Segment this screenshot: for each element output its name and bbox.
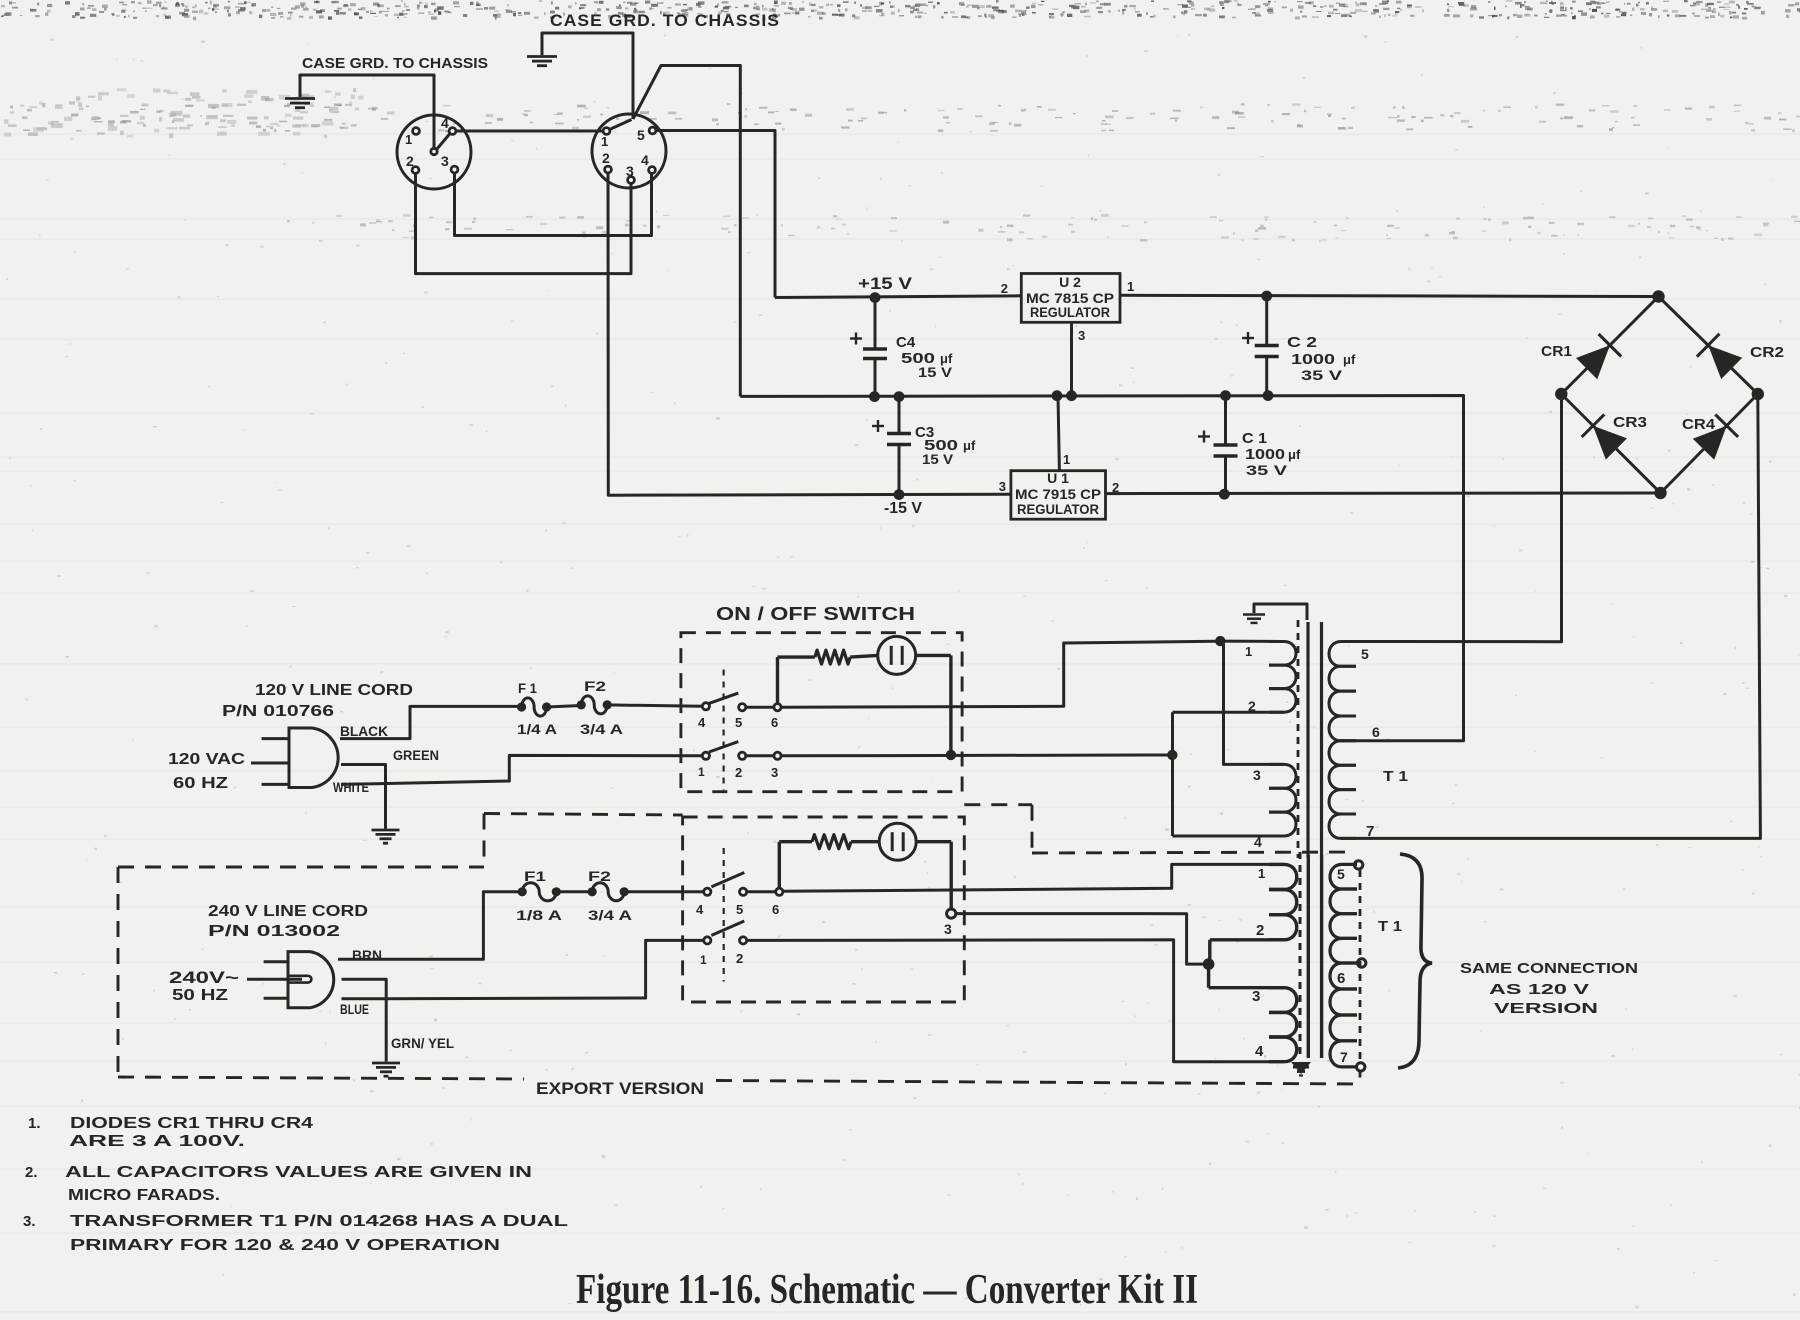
diode CR2 <box>1697 334 1720 357</box>
svg-text:2: 2 <box>736 951 743 966</box>
svg-text:P/N 010766: P/N 010766 <box>222 703 334 720</box>
transformer T1 secondary (120V) <box>1329 642 1356 667</box>
svg-text:1/4 A: 1/4 A <box>517 721 557 737</box>
wire brown <box>338 892 518 960</box>
switch S1 contacts 120V <box>702 703 709 710</box>
brace same-connection <box>1398 854 1432 1068</box>
svg-text:3: 3 <box>626 163 634 179</box>
wire bridge-right to T1 pin7 <box>1341 394 1760 838</box>
svg-text:2.: 2. <box>25 1164 38 1181</box>
node 0V/C2 bottom <box>1263 390 1274 401</box>
svg-text:1000: 1000 <box>1291 351 1335 368</box>
svg-text:6: 6 <box>1337 970 1345 987</box>
regulator U1 MC7915CP <box>1011 471 1106 520</box>
wire J2 pin5 to +15 feed <box>656 131 775 298</box>
svg-text:2: 2 <box>1256 922 1264 939</box>
svg-text:5: 5 <box>736 902 743 917</box>
resistor + neon lamp DS1' (240V) <box>778 842 781 889</box>
svg-text:CASE GRD. TO CHASSIS: CASE GRD. TO CHASSIS <box>550 12 780 30</box>
switch box S1 (dashed) <box>681 633 962 792</box>
svg-text:C 2: C 2 <box>1287 334 1317 351</box>
svg-text:3/4 A: 3/4 A <box>580 721 623 737</box>
svg-text:5: 5 <box>1361 646 1369 662</box>
fuse F1 (120V) <box>517 702 526 711</box>
node bridge left <box>1555 388 1567 400</box>
diode CR3 <box>1582 414 1605 437</box>
svg-text:120 VAC: 120 VAC <box>168 751 246 768</box>
svg-text:2: 2 <box>602 150 610 166</box>
node +15/C4 <box>870 292 881 303</box>
svg-text:WHITE: WHITE <box>333 780 369 795</box>
wire c2-c3 <box>746 754 774 757</box>
ground (grn/yel) <box>372 1062 400 1065</box>
svg-text:3: 3 <box>441 153 449 169</box>
wire case-grd left connector <box>300 75 434 149</box>
wire J2 pin1 to case-grd node <box>610 120 632 130</box>
node 0V/C4 <box>869 391 880 402</box>
svg-text:ALL CAPACITORS VALUES ARE: ALL CAPACITORS VALUES ARE GIVEN IN <box>65 1164 532 1181</box>
svg-text:2: 2 <box>406 153 414 169</box>
wire J1 pin3 to J2 pin4 <box>455 173 652 236</box>
svg-text:GRN/ YEL: GRN/ YEL <box>391 1036 454 1051</box>
wire c3 to 2-4 tie <box>781 754 1167 758</box>
transformer T1 secondary (240V export) <box>1330 864 1357 889</box>
svg-text:1: 1 <box>1258 866 1265 881</box>
svg-text:3: 3 <box>944 921 952 937</box>
svg-text:3: 3 <box>1253 767 1261 783</box>
wire F2 to switch 240V <box>624 890 704 893</box>
svg-text:3: 3 <box>1252 988 1260 1005</box>
svg-text:ON / OFF SWITCH: ON / OFF SWITCH <box>716 604 915 624</box>
svg-text:MICRO FARADS.: MICRO FARADS. <box>68 1187 220 1204</box>
svg-text:C 1: C 1 <box>1242 430 1267 447</box>
node -15/C1 <box>1219 489 1230 500</box>
svg-text:35 V: 35 V <box>1301 367 1343 383</box>
svg-text:U 2: U 2 <box>1059 274 1081 290</box>
wire bridge edge left-top <box>1561 297 1658 395</box>
ground (T1 core) <box>1243 613 1265 616</box>
svg-text:240V~: 240V~ <box>169 968 239 987</box>
plug P2 240V line cord <box>288 952 334 1008</box>
svg-text:F2: F2 <box>588 868 611 884</box>
svg-text:3: 3 <box>999 479 1006 494</box>
svg-text:+15 V: +15 V <box>858 274 913 293</box>
svg-text:CR3: CR3 <box>1613 414 1647 431</box>
svg-text:-15 V: -15 V <box>884 500 922 517</box>
svg-text:5: 5 <box>735 715 742 730</box>
svg-text:2: 2 <box>1112 480 1119 495</box>
wire c6 to T1 pin1 feed <box>781 641 1215 707</box>
svg-text:4: 4 <box>441 115 449 131</box>
wire case-grd right connector <box>542 33 633 119</box>
svg-text:120 V LINE CORD: 120 V LINE CORD <box>255 682 413 699</box>
wire blue <box>342 940 704 998</box>
svg-text:6: 6 <box>1372 724 1380 740</box>
ground (T1 240V core) <box>1291 1062 1311 1074</box>
svg-text:15 V: 15 V <box>918 364 953 380</box>
wire c5-c6 <box>746 706 774 709</box>
diode CR1 <box>1599 334 1622 357</box>
svg-text:15 V: 15 V <box>922 451 954 467</box>
fuse F2 (120V) <box>577 700 586 709</box>
wire c6' to T1' pin1 <box>783 864 1284 891</box>
capacitor C3 500uf 15V <box>898 397 901 434</box>
node 0V/U2 pin3 <box>1066 390 1077 401</box>
wire c2' to T1' pin4 <box>747 940 1284 1062</box>
svg-text:4: 4 <box>698 715 706 730</box>
svg-text:1.: 1. <box>28 1115 41 1132</box>
svg-text:MC 7915 CP: MC 7915 CP <box>1015 487 1101 502</box>
svg-text:EXPORT VERSION: EXPORT VERSION <box>536 1079 704 1098</box>
svg-text:TRANSFORMER T1 P/N 014268: TRANSFORMER T1 P/N 014268 HAS A DUAL <box>70 1213 568 1230</box>
wire black <box>340 706 519 738</box>
svg-text:ARE 3 A 100V.: ARE 3 A 100V. <box>69 1133 245 1150</box>
svg-text:PRIMARY FOR 120 & 240 V OP: PRIMARY FOR 120 & 240 V OPERATION <box>70 1237 500 1254</box>
node +15/C2 <box>1261 291 1272 302</box>
svg-text:VERSION: VERSION <box>1494 1000 1598 1017</box>
svg-text:AS 120 V: AS 120 V <box>1489 981 1589 998</box>
svg-text:35 V: 35 V <box>1246 462 1288 478</box>
diode CR4 <box>1715 415 1738 437</box>
node 0V/U1 pin1 <box>1052 390 1063 401</box>
EXPORT VERSION dashed outline <box>118 866 484 869</box>
svg-text:1: 1 <box>698 765 705 779</box>
node 0V/C3 top <box>894 391 905 402</box>
wire bridge edge top-right <box>1659 297 1758 395</box>
node lamp/c3 line <box>946 750 956 760</box>
wire core to ground <box>1254 604 1307 620</box>
wire +15V rail left <box>775 296 1021 298</box>
wire +15V rail right <box>1120 295 1659 296</box>
connector J1 (5-pin plug left) <box>397 115 471 189</box>
connector J2 (5-pin plug right) <box>592 114 666 188</box>
node 0V/C1 top <box>1220 390 1231 401</box>
wire 0V rail <box>740 396 1463 741</box>
transformer T1 primary (240V export) <box>1269 864 1297 889</box>
svg-text:6: 6 <box>771 715 778 730</box>
fuse F1 (240V) <box>518 887 527 896</box>
capacitor C4 500uf 15V <box>874 298 877 349</box>
svg-text:μf: μf <box>963 438 976 453</box>
svg-text:7: 7 <box>1340 1049 1348 1065</box>
svg-text:BLUE: BLUE <box>340 1002 369 1017</box>
svg-text:3: 3 <box>771 765 778 780</box>
svg-text:3: 3 <box>1078 328 1085 343</box>
wire bridge edge bottom-right <box>1661 394 1758 493</box>
wire c3' to 2-3 tie <box>956 914 1203 965</box>
svg-text:BLACK: BLACK <box>340 724 388 739</box>
svg-text:REGULATOR: REGULATOR <box>1030 305 1110 320</box>
switch S2 contacts 240V <box>704 888 711 895</box>
ground (green wire) <box>372 829 400 832</box>
svg-text:5: 5 <box>1337 866 1345 882</box>
svg-text:3.: 3. <box>23 1213 36 1230</box>
svg-text:240 V LINE CORD: 240 V LINE CORD <box>208 903 368 920</box>
transformer T1 primary (120V) <box>1220 640 1284 643</box>
wire bridge-left to T1 pin5 <box>1341 394 1562 642</box>
wire F2 to switch <box>607 705 702 706</box>
transformer T1 core <box>1297 620 1300 858</box>
wire green <box>341 765 386 829</box>
wire bridge edge left-bottom <box>1561 394 1660 493</box>
node -15/C3 <box>894 489 905 500</box>
svg-text:4: 4 <box>1254 834 1262 850</box>
wire J1 pin2 to J2 pin3 <box>416 174 632 274</box>
svg-text:2: 2 <box>735 765 742 780</box>
svg-text:1: 1 <box>1245 644 1252 659</box>
svg-text:DIODES CR1 THRU CR4: DIODES CR1 THRU CR4 <box>70 1115 314 1132</box>
wire -15V rail right <box>1106 492 1661 496</box>
svg-text:T 1: T 1 <box>1378 918 1402 935</box>
svg-text:1/8 A: 1/8 A <box>516 907 562 923</box>
svg-text:μf: μf <box>1288 447 1301 462</box>
node bridge bottom <box>1654 487 1666 499</box>
svg-text:1: 1 <box>700 953 707 967</box>
svg-text:F2: F2 <box>584 678 606 694</box>
svg-text:Figure 11-16. Schematic — Co: Figure 11-16. Schematic — Converter Kit … <box>576 1267 1198 1313</box>
svg-text:P/N 013002: P/N 013002 <box>208 923 340 940</box>
svg-text:REGULATOR: REGULATOR <box>1017 502 1099 517</box>
svg-text:1: 1 <box>405 132 412 147</box>
plug P1 120V line cord <box>289 728 338 788</box>
ground (left case grd) <box>285 97 315 100</box>
wire F1-F2 <box>547 706 582 708</box>
svg-text:2: 2 <box>1001 281 1008 296</box>
wire node to 0V feed diagonal <box>633 66 740 397</box>
svg-text:3/4 A: 3/4 A <box>588 907 632 923</box>
regulator U2 MC7815CP <box>1021 274 1120 323</box>
capacitor C2 1000uf 35V <box>1265 296 1268 346</box>
wire J1 pin4 to J2 pin1 <box>456 130 603 133</box>
wire white <box>341 755 702 784</box>
switch box S1' 240V (dashed) <box>683 817 965 1002</box>
resistor + neon lamp DS1 (120V) <box>776 657 779 704</box>
svg-text:F 1: F 1 <box>518 680 537 696</box>
svg-text:6: 6 <box>772 902 779 917</box>
svg-text:μf: μf <box>1343 352 1356 367</box>
svg-text:4: 4 <box>641 152 649 168</box>
svg-text:2: 2 <box>1248 698 1256 714</box>
svg-text:SAME CONNECTION: SAME CONNECTION <box>1460 960 1638 977</box>
svg-text:F1: F1 <box>524 868 546 884</box>
node bridge top <box>1652 290 1664 302</box>
svg-text:CR1: CR1 <box>1541 343 1572 360</box>
node bridge right <box>1752 388 1764 400</box>
svg-text:CR4: CR4 <box>1682 416 1716 433</box>
transformer T1 core (240V) <box>1299 852 1302 1058</box>
fuse F2 (240V) <box>588 887 597 896</box>
ground (top case grd) <box>527 55 557 58</box>
svg-text:50 HZ: 50 HZ <box>172 987 228 1004</box>
svg-text:1: 1 <box>1063 452 1070 467</box>
svg-text:4: 4 <box>696 902 704 917</box>
wire J2 pin2 to -15 rail <box>608 173 1011 495</box>
svg-text:CASE GRD. TO CHASSIS: CASE GRD. TO CHASSIS <box>302 55 488 72</box>
wire F1-F2 240V <box>556 890 592 893</box>
svg-text:GREEN: GREEN <box>393 748 439 763</box>
capacitor C1 1000uf 35V <box>1224 396 1227 445</box>
svg-text:7: 7 <box>1366 823 1374 840</box>
svg-text:4: 4 <box>1255 1043 1264 1060</box>
svg-text:5: 5 <box>637 127 645 143</box>
svg-text:CR2: CR2 <box>1750 344 1784 361</box>
svg-text:1000: 1000 <box>1245 446 1285 463</box>
svg-text:U 1: U 1 <box>1047 470 1069 486</box>
svg-text:1: 1 <box>601 134 608 149</box>
svg-text:60 HZ: 60 HZ <box>173 775 228 792</box>
svg-text:C4: C4 <box>896 334 916 351</box>
svg-text:T 1: T 1 <box>1383 768 1408 785</box>
svg-text:1: 1 <box>1127 279 1134 294</box>
svg-text:MC 7815 CP: MC 7815 CP <box>1026 291 1114 306</box>
wire grn/yel <box>342 979 387 1061</box>
wire c5'-c6' <box>747 890 776 893</box>
